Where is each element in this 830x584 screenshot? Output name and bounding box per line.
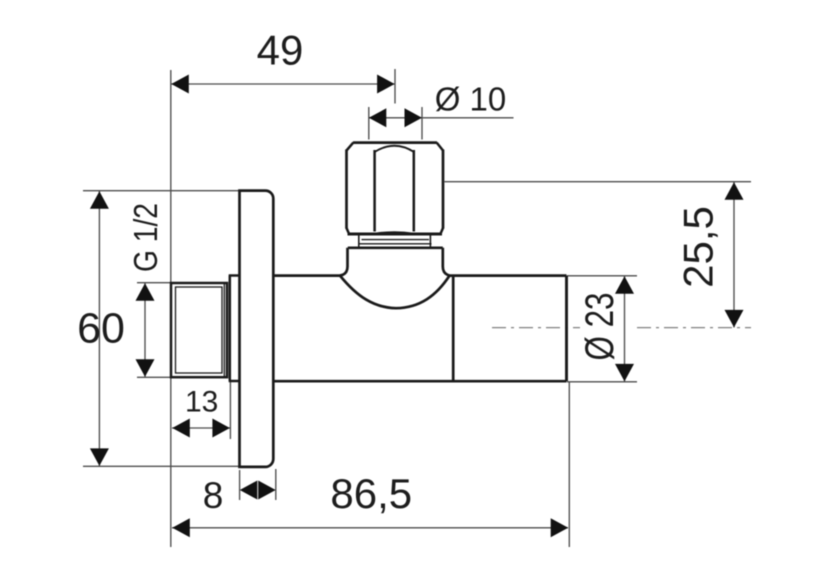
svg-text:13: 13 bbox=[185, 385, 218, 418]
dimension 86,5 line bbox=[172, 527, 568, 529]
dimension 60 line bbox=[98, 191, 100, 466]
dimension 25,5 top extension bbox=[445, 181, 752, 183]
dimension G 1/2 bottom extension bbox=[137, 376, 171, 378]
dimension 60 arrow down bbox=[90, 448, 109, 466]
dimension 13 arrow left bbox=[172, 419, 190, 438]
dimension 8 left extension bbox=[239, 470, 241, 500]
shoulder top edge bbox=[348, 246, 443, 249]
dimension G 1/2 line bbox=[144, 283, 146, 377]
dimension D23 top extension bbox=[567, 275, 637, 277]
knurled ring band vertical edges bbox=[358, 235, 360, 248]
dimension 13 arrow right bbox=[212, 419, 230, 438]
valve body barrel top edge right bbox=[450, 274, 567, 277]
knob hex top edge bbox=[353, 141, 437, 144]
dimension 49 arrow left bbox=[171, 75, 189, 94]
wall plate (escutcheon) bbox=[240, 191, 274, 467]
dimension D10 right extension bbox=[421, 107, 423, 140]
svg-text:86,5: 86,5 bbox=[330, 470, 412, 517]
knob hex bottom chamfer right bbox=[441, 228, 444, 234]
outlet pipe end face bbox=[565, 276, 568, 382]
inlet thread nipple outer bbox=[171, 283, 227, 377]
dimension 25,5 arrow down bbox=[725, 310, 744, 328]
knob hex left edge bbox=[345, 150, 348, 229]
knurled ring band lines bbox=[362, 239, 430, 241]
svg-text:25,5: 25,5 bbox=[675, 206, 722, 288]
knob hex bottom edge bbox=[348, 233, 443, 236]
knob hex facet line right bbox=[413, 150, 416, 232]
svg-text:49: 49 bbox=[257, 27, 304, 74]
dimension 49 right extension (knob axis) bbox=[394, 69, 396, 104]
knob hex right edge bbox=[442, 150, 445, 229]
svg-text:Ø 10: Ø 10 bbox=[435, 81, 507, 118]
knob hex top chamfer left bbox=[347, 143, 354, 151]
dimension G 1/2 arrow down bbox=[136, 359, 155, 377]
valve body bottom edge bbox=[273, 380, 566, 383]
valve body barrel top edge left bbox=[273, 274, 340, 277]
dimension D10 arrow left bbox=[369, 108, 387, 127]
knob hex bottom chamfer left bbox=[347, 228, 350, 234]
dimension 13 right extension bbox=[229, 381, 231, 439]
svg-text:Ø 23: Ø 23 bbox=[578, 293, 622, 361]
dimension D10 line and leader bbox=[369, 117, 514, 119]
dimension 86,5 arrow right bbox=[551, 518, 569, 537]
dome fillet under knob bbox=[340, 276, 450, 309]
inlet thread nipple relief line bbox=[223, 284, 225, 376]
dimension 86,5 right extension (pipe end) bbox=[568, 382, 570, 547]
dimension D10 left extension bbox=[368, 107, 370, 140]
dimension D23 arrow down bbox=[615, 364, 634, 382]
dimension 8 arrow right bbox=[258, 481, 276, 500]
knob hex crown arc bbox=[375, 146, 415, 152]
dimension D10 arrow right bbox=[405, 108, 423, 127]
dimension D23 bottom extension bbox=[567, 381, 637, 383]
dimension 49 arrow right bbox=[377, 75, 395, 94]
svg-text:G 1/2: G 1/2 bbox=[127, 203, 164, 272]
dimension 60 arrow up bbox=[90, 191, 109, 209]
dimension 60 top extension bbox=[83, 190, 240, 192]
dimension 13 line bbox=[172, 427, 230, 429]
dimension D23 line bbox=[624, 276, 626, 382]
knob hex bottom facet arc bbox=[375, 232, 414, 234]
shoulder left side bbox=[340, 248, 348, 276]
shoulder right side bbox=[443, 248, 450, 276]
dimension D23 arrow up bbox=[615, 276, 634, 294]
dimension G 1/2 top extension bbox=[137, 282, 171, 284]
dimension 86,5 arrow left bbox=[172, 518, 190, 537]
svg-text:8: 8 bbox=[203, 475, 224, 516]
dimension 49 line bbox=[171, 83, 395, 85]
centerline of outlet pipe bbox=[492, 327, 580, 329]
knob hex facet line left bbox=[373, 150, 376, 232]
inlet thread nipple chamfer inner bbox=[176, 287, 223, 373]
dimension 60 bottom extension bbox=[83, 465, 250, 467]
collar between nipple and wall plate bbox=[229, 276, 240, 382]
dimension 8 right extension bbox=[275, 469, 277, 500]
dimension G 1/2 arrow up bbox=[136, 283, 155, 301]
svg-text:60: 60 bbox=[77, 305, 125, 353]
knob hex top chamfer right bbox=[437, 143, 443, 151]
dimension extension line left (valve inlet face) bbox=[170, 70, 172, 547]
dimension 25,5 line bbox=[733, 182, 735, 328]
dimension 8 arrow left bbox=[240, 481, 257, 500]
dimension 25,5 arrow up bbox=[725, 182, 744, 200]
body to outlet pipe junction bbox=[452, 276, 455, 382]
